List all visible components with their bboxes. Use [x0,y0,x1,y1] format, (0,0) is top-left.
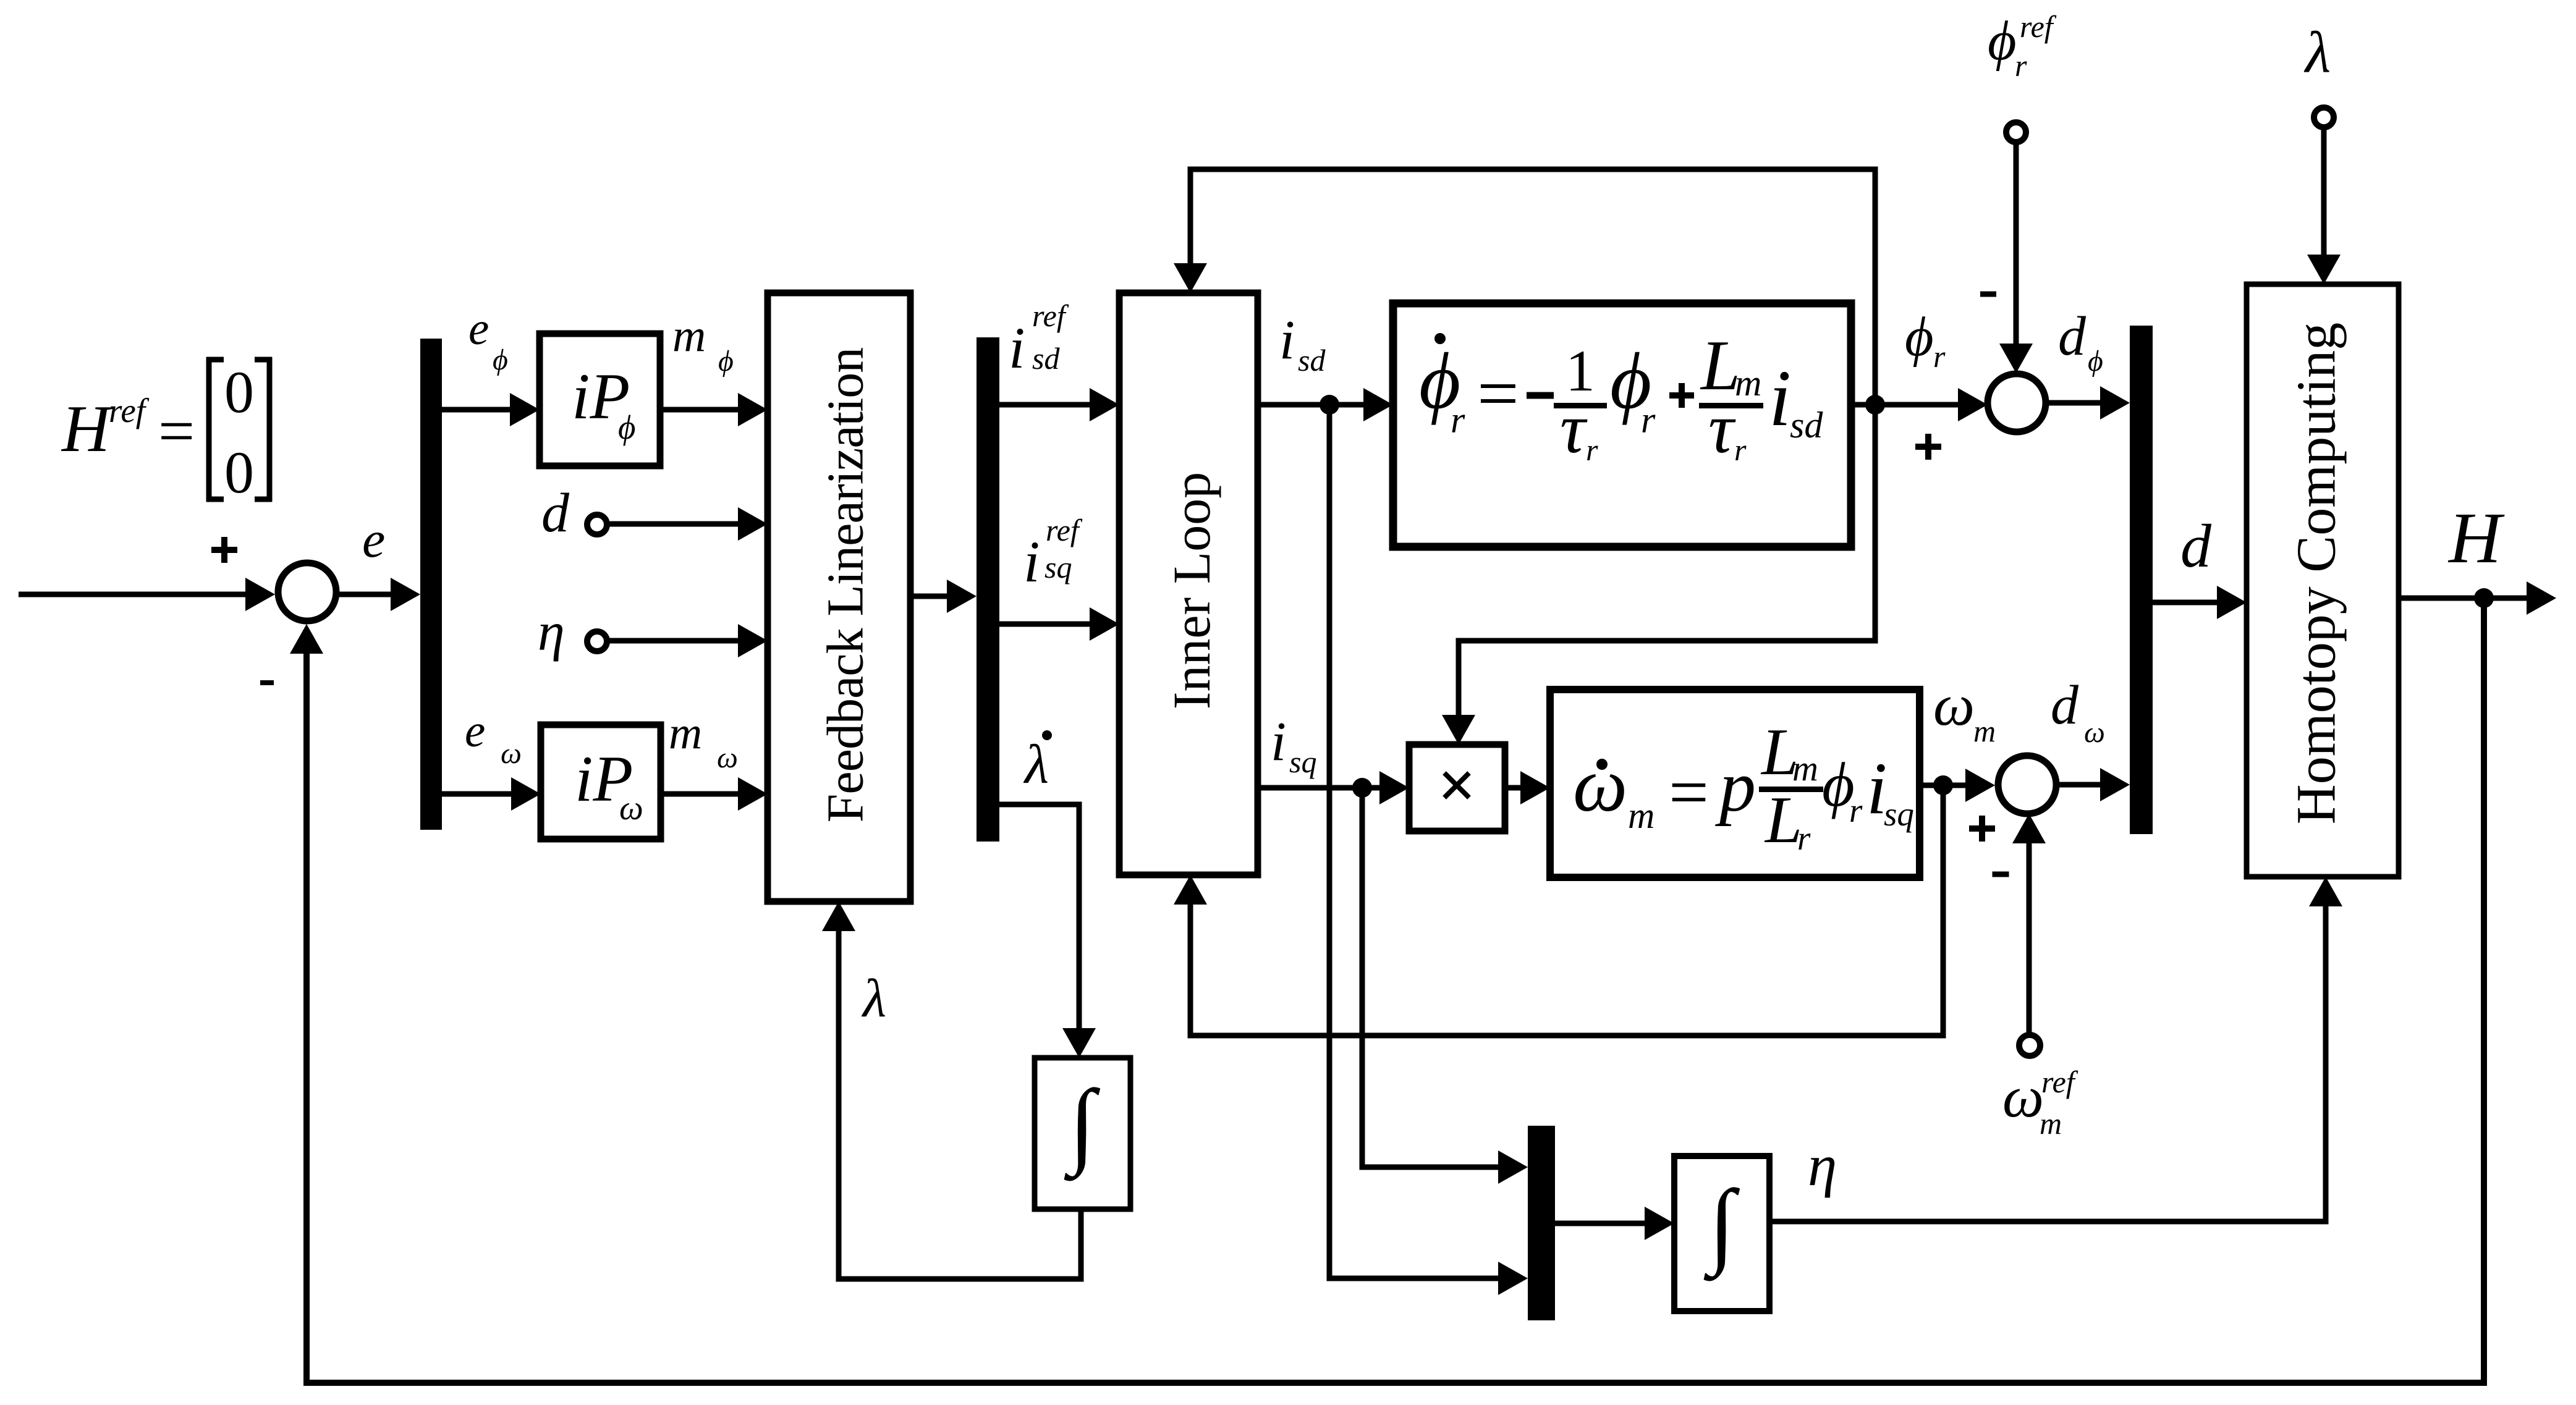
svg-text:τ: τ [1560,389,1588,468]
wire e_omega from B1 to block iP_omega [442,791,515,797]
plus sign at S3 [1969,825,1995,832]
matrix bracket right [267,357,273,502]
svg-text:sd: sd [1032,341,1060,376]
svg-text:L: L [1764,783,1802,857]
wire e from S1 to bus B1 [339,592,394,597]
svg-text:∫: ∫ [1704,1170,1740,1281]
svg-text:ϕ: ϕ [1905,306,1934,368]
svg-text:0: 0 [224,359,254,425]
summing junction S1 [278,563,336,621]
svg-text:ω: ω [717,741,738,774]
node i_sd junction [1320,395,1339,415]
svg-text:sq: sq [1289,745,1316,779]
svg-text:m: m [1628,795,1654,836]
wire i_sd branch down to bus B4 [1329,405,1502,1278]
block Homotopy Computing [2247,284,2399,877]
svg-text:sq: sq [1044,550,1072,584]
svg-text:r: r [1641,400,1656,441]
minus sign at S3 [1993,872,2009,877]
svg-text:H: H [2447,497,2505,578]
svg-text:=: = [1669,753,1709,832]
block iP_omega [541,725,661,839]
svg-text:Feedback Linearization: Feedback Linearization [817,348,875,823]
bus bar B1 [420,339,442,830]
svg-text:0: 0 [224,439,254,505]
summing junction S3 [1998,756,2056,814]
svg-text:=: = [158,395,195,467]
svg-text:ϕ: ϕ [718,345,734,378]
svg-text:ϕ: ϕ [493,344,508,376]
block Inner Loop [1119,293,1258,875]
block iP_phi [540,334,660,466]
block speed equation omega_m-dot = p (L_m/L_r) phi_r i_sq [1550,690,1920,877]
svg-text:∫: ∫ [1064,1070,1101,1181]
svg-text:m: m [1735,363,1761,403]
wire top feedback from node phi_r into Inner Loop top [1190,169,1875,405]
svg-text:=: = [1477,352,1519,434]
block flux equation phi_r-dot = -(1/tau_r) phi_r + (L_m/tau_r) i_sd [1393,303,1851,547]
bus bar B4 [1528,1126,1555,1320]
svg-text:η: η [538,602,565,662]
svg-text:ref: ref [1046,513,1083,547]
block Feedback Linearization [768,293,910,901]
wire lambda into Homotopy Computing [2321,127,2327,257]
wire d_phi from S2 to bus B3 [2046,400,2104,406]
wire omega_m from speed equation to summing junction S3 [1920,783,1969,788]
block integrator I1 [1035,1058,1130,1209]
wire omega_m feedback to Inner Loop bottom [1190,785,1943,1036]
svg-text:η: η [1808,1133,1837,1198]
svg-text:sd: sd [1298,343,1326,378]
wire i_sq from Inner Loop to multiplier [1258,785,1383,791]
svg-text:λ: λ [861,969,886,1029]
svg-text:r: r [1933,339,1946,374]
svg-text:r: r [1797,819,1811,857]
node i_sq junction [1352,778,1372,798]
input terminal eta [587,631,607,651]
wire from B4 to integrator I2 [1555,1221,1648,1226]
svg-text:r: r [2015,48,2027,83]
svg-text:r: r [1451,400,1465,441]
svg-text:i: i [1271,711,1286,772]
svg-text:r: r [1586,432,1598,467]
bus bar B3 [2130,326,2153,834]
svg-text:ref: ref [109,392,150,429]
svg-text:H: H [61,392,113,466]
input terminal lambda top right [2314,108,2334,127]
block integrator I2 [1674,1156,1769,1311]
wire i_sq branch down to bus B4 [1362,788,1502,1167]
wire m_omega from iP_omega to Feedback Linearization [661,791,742,797]
svg-text:ϕ: ϕ [2088,345,2103,378]
svg-text:Homotopy Computing: Homotopy Computing [2286,323,2347,825]
input terminal phi_r_ref [2006,122,2026,142]
svg-text:m: m [669,707,702,759]
svg-text:ref: ref [2020,9,2057,44]
svg-text:ω: ω [1933,672,1975,738]
node omega_m junction [1933,775,1953,795]
svg-text:Inner Loop: Inner Loop [1162,472,1221,709]
wire m_phi from iP_phi to Feedback Linearization [660,407,742,413]
svg-text:d: d [2058,306,2087,367]
wire from multiplier to speed equation block [1505,785,1524,791]
svg-text:m: m [672,310,706,361]
svg-text:i: i [1279,310,1295,371]
svg-text:m: m [2040,1106,2062,1141]
wire reference input into summing junction S1 [19,592,249,597]
wire eta from I2 up into Homotopy Computing bottom [1769,904,2326,1221]
wire lambda from I1 back into Feedback Linearization bottom [839,929,1081,1279]
svg-text:p: p [1715,746,1756,827]
svg-text:m: m [1973,714,1996,748]
svg-text:e: e [468,303,489,355]
svg-text:m: m [1792,748,1818,788]
svg-text:λ: λ [2303,20,2331,85]
wire i_sd from Inner Loop to flux equation block [1258,402,1367,408]
svg-text:ref: ref [1032,298,1069,333]
wire eta into Feedback Linearization [607,638,742,644]
wire H feedback to summing junction S1 [307,598,2484,1383]
wire from Feedback Linearization to bus B2 [910,594,951,599]
svg-text:d: d [541,483,570,544]
wire d into Feedback Linearization [607,521,742,527]
svg-text:ϕ: ϕ [618,408,635,446]
plus sign at summing junction S1 [211,547,237,553]
wire omega_m_ref up into summing junction S3 [2027,841,2032,1035]
svg-text:ω: ω [619,789,643,827]
svg-text:i: i [1009,315,1025,381]
svg-text:d: d [2180,512,2212,580]
minus sign at S2 [1980,292,1996,297]
svg-text:ω: ω [1573,743,1627,828]
svg-text:ω: ω [501,737,522,770]
svg-text:λ: λ [1023,734,1049,795]
svg-text:i: i [1023,529,1040,594]
svg-text:r: r [1734,432,1747,467]
bus bar B2 [977,337,999,842]
svg-text:sq: sq [1884,795,1914,833]
svg-text:e: e [465,706,485,757]
wire d_omega from S3 to bus B3 [2056,782,2104,788]
minus sign at summing junction S1 [260,680,274,685]
svg-text:r: r [1849,791,1863,829]
svg-text:ϕ: ϕ [1988,11,2017,72]
svg-text:ω: ω [2084,716,2105,749]
wire i_sq_ref from B2 to Inner Loop [999,622,1093,627]
svg-text:sd: sd [1790,405,1823,445]
wire phi_r feedback down to multiplier [1459,405,1875,717]
svg-text:τ: τ [1708,389,1736,468]
summing junction S2 [1988,374,2046,432]
input terminal omega_m_ref [2019,1035,2040,1056]
block multiplier [1409,745,1505,831]
wire phi_r_ref down into summing junction S2 [2014,142,2019,346]
node phi_r junction [1865,395,1885,415]
svg-text:e: e [362,511,385,568]
wire H output from Homotopy Computing [2399,596,2530,601]
svg-text:d: d [2051,675,2079,736]
wire phi_r from flux equation to summing junction S2 [1851,402,1875,408]
matrix bracket left [206,357,212,502]
svg-text:ref: ref [2041,1065,2078,1099]
node H junction [2474,588,2494,608]
plus sign at S2 [1915,444,1941,450]
wire i_sd_ref from B2 to Inner Loop [999,402,1093,408]
svg-text:ω: ω [2002,1064,2044,1129]
wire d from B3 to Homotopy Computing [2153,600,2221,605]
wire e_phi from B1 to block iP_phi [442,407,514,413]
input terminal d [587,515,607,534]
svg-text:i: i [1769,354,1791,443]
wire lambda-dot from B2 down to integrator I1 [999,804,1079,1031]
